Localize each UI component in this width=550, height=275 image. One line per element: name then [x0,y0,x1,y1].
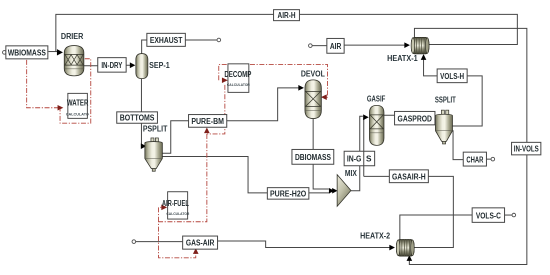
arrow double into MIX inlet [329,188,334,194]
block DRIER vessel [61,32,84,76]
node AIR source circle [309,44,313,48]
stream label GAS-AIR [183,236,218,249]
node EXHAUST end circle [217,38,221,42]
svg-text:VOLS-H: VOLS-H [440,72,464,81]
wire MIX outlet IN-GAS to GASIF [351,116,363,191]
block HEATX-1 heat exchanger [387,37,429,63]
wire HEATX-1 top outlet IN-VOLS to HEATX-2 bottom [409,28,526,264]
wire red junction down to AIR-FUEL level [159,134,207,258]
wire HEATX-2 right outlet to GASAIR-H [414,176,454,247]
svg-text:PURE-BM: PURE-BM [191,117,224,126]
wire IN-DRY to SEP-1 [126,64,131,66]
svg-text:CALCULATOR: CALCULATOR [227,82,250,87]
stream label AIR [327,38,344,53]
node WBIOMASS source circle [3,51,7,55]
stream label VOLS-H [437,69,467,83]
wire AIR circle to AIR label [312,45,327,47]
wire DRIER to IN-DRY [84,65,98,67]
node VOLS-C end circle [512,213,516,217]
arrow into HEATX-2 left inlet [389,245,395,251]
wire GASIF to GASPROD [384,114,395,116]
wire red DECOMP to DEVOL [219,64,328,97]
block PSPLIT solids splitter [143,125,168,172]
wire HEATX-2 top outlet to VOLS-C [400,215,472,240]
stream label CHAR [463,152,486,166]
arrow up into HEATX-1 bottom [421,54,427,60]
node GAS-AIR source circle [132,240,136,244]
svg-text:BOTTOMS: BOTTOMS [120,114,155,123]
svg-text:DRIER: DRIER [61,32,84,41]
stream label PURE-BM [189,115,227,128]
wire SEP-1 top to EXHAUST [142,40,147,54]
svg-text:GASAIR-H: GASAIR-H [392,172,426,181]
calculator AIR-FUEL [162,192,190,219]
wire GAS-AIR circle to label [136,241,183,243]
svg-text:IN-G: IN-G [347,155,362,164]
wire CHAR to end circle [486,158,491,160]
arrow into DRIER inlet [57,49,63,55]
wire PURE-BM to DEVOL [227,88,299,121]
block DEVOL vessel [301,69,325,118]
arrow red into WATER calculator [58,105,64,111]
stream label IN-DRY [98,58,126,73]
wire EXHAUST to vent circle [185,39,217,41]
arrow into HEATX-1 left inlet [404,42,410,48]
wire GASPROD to SSPLIT [434,118,435,120]
svg-text:DEVOL: DEVOL [301,69,325,78]
stream label PURE-H2O [267,188,309,200]
wire DEVOL bottom to DBIOMASS to MIX [313,119,329,189]
wire GASAIR-H to riser [364,175,390,177]
stream label WBIOMASS [6,46,48,59]
wire AIR to HEATX-1 [344,44,405,46]
stream label IN-VOLS [512,142,541,155]
arrow red into AIR-FUEL left [161,205,167,211]
svg-text:AIR-H: AIR-H [278,11,296,20]
svg-text:HEATX-1: HEATX-1 [387,54,418,63]
wire PURE-H2O to MIX [309,192,330,194]
wire red DECOMP down to PURE-BM junction [207,85,225,134]
svg-text:GAS-AIR: GAS-AIR [186,239,215,248]
wire AIR-H return: HEATX-1 outlet to AIR-H label to DRIER [56,14,517,51]
wire GASAIR-H riser to GASIF [364,119,365,177]
stream label VOLS-C [472,208,504,223]
wire PSPLIT top outlet to PURE-BM [160,121,188,154]
stream label BOTTOMS [117,112,158,123]
calculator DECOMP [224,64,252,93]
stream label AIR-H [274,10,300,21]
stream label GASPROD [395,111,435,124]
arrow red into DECOMP left [222,77,228,83]
block MIX mixer [337,169,357,206]
arrow red up into PURE-BM bottom [204,127,210,133]
wire VOLS-C to end circle [505,214,512,216]
block SSPLIT solids splitter [435,95,456,144]
wire SEP-1 bottom BOTTOMS to PSPLIT [140,78,143,146]
wire red DRIER tap down right side of WATER [60,59,91,123]
stream label DBIOMASS [292,149,334,164]
svg-text:MIX: MIX [345,169,358,178]
wire WBIOMASS to DRIER [48,51,58,53]
stream label EXHAUST [147,33,186,46]
block HEATX-2 heat exchanger [360,231,414,256]
svg-text:SEP-1: SEP-1 [149,61,170,70]
arrow into DEVOL inlet [298,85,304,91]
svg-text:WATER: WATER [67,98,89,107]
svg-text:EXHAUST: EXHAUST [150,36,183,45]
svg-text:CHAR: CHAR [466,155,483,164]
svg-text:SSPLIT: SSPLIT [435,95,456,104]
svg-text:CALCULATO: CALCULATO [66,111,89,116]
arrow into PSPLIT inlet [141,143,147,149]
wire GAS-AIR to HEATX-2 [218,241,390,248]
wire SSPLIT bottom outlet to CHAR [450,131,463,160]
node CHAR end circle [491,157,495,161]
block SEP-1 flash vessel [136,54,170,79]
svg-text:IN-VOLS: IN-VOLS [514,145,540,154]
wire VOLS-H to HEATX-1 bottom [424,59,438,76]
svg-text:PSPLIT: PSPLIT [143,125,168,134]
arrow red into DEVOL right [321,94,327,100]
svg-text:CALCULATOR: CALCULATOR [166,211,189,216]
arrow red up into GAS-AIR bottom [193,248,199,254]
svg-text:VOLS-C: VOLS-C [476,211,501,220]
block GASIF vessel [367,94,386,145]
wire red stub to AIR-FUEL [159,207,162,221]
stream label GASAIR-H [389,170,428,183]
arrow into SEP-1 inlet [130,62,136,68]
svg-text:AIR-FUEL: AIR-FUEL [162,199,189,208]
svg-text:WBIOMASS: WBIOMASS [8,48,47,57]
svg-text:GASIF: GASIF [367,94,386,103]
wire red WBIOMASS to WATER calculator [27,60,59,108]
svg-text:DBIOMASS: DBIOMASS [295,153,332,162]
stream label IN-GAS [344,151,375,166]
wire SSPLIT top outlet to VOLS-H [452,76,482,126]
arrow up into HEATX-2 bottom [407,255,413,261]
arrow into SSPLIT inlet [433,116,439,122]
svg-text:HEATX-2: HEATX-2 [360,231,390,240]
svg-text:IN-DRY: IN-DRY [101,61,123,70]
wire PSPLIT side outlet to PURE-H2O [161,157,267,193]
svg-text:AIR: AIR [330,42,342,51]
arrow into GASIF inlet [363,114,369,120]
svg-text:PURE-H2O: PURE-H2O [270,190,306,199]
svg-text:DECOMP: DECOMP [224,70,252,79]
calculator WATER [66,93,89,118]
svg-text:GASPROD: GASPROD [398,114,433,123]
svg-text:S: S [366,155,372,164]
